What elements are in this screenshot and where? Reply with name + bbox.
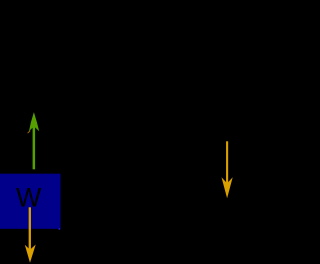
force arrow up (green) shaft (33, 125, 36, 169)
weight arrow down (orange) shaft (29, 207, 31, 251)
weight arrow down (orange) head (25, 245, 36, 263)
box corner highlight pixel (59, 228, 61, 229)
block W (blue box) (0, 174, 61, 229)
right arrow down (orange) shaft (226, 141, 228, 184)
svg-text:W: W (16, 183, 42, 213)
right arrow down (orange) head (222, 177, 233, 198)
force arrow up (green) head (29, 112, 39, 131)
hidden orange barb edge behind green head (28, 131, 31, 134)
